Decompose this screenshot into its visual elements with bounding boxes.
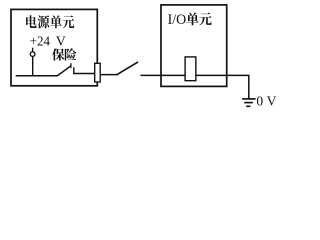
fuse body (保险) (95, 63, 101, 82)
label 保险 (fuse) (52, 48, 76, 60)
wire: left horizontal (16, 75, 58, 77)
wire: fuse to external switch (100, 74, 117, 76)
wire: terminal lead down (32, 56, 34, 76)
switch fixed post (73, 67, 75, 74)
wire: switch to I/O unit and on down to 0V (141, 75, 249, 98)
svg-text:I/O: I/O (168, 12, 187, 28)
+24V terminal: stem (32, 48, 34, 52)
svg-text:V: V (56, 35, 66, 50)
switch blade tick (70, 63, 72, 68)
power supply unit box 电源单元 (11, 9, 97, 85)
wire: post to fuse (73, 73, 95, 75)
input circuit rectangle inside I/O unit (185, 57, 196, 81)
external switch blade (117, 62, 139, 75)
I/O unit box I/O单元 (161, 5, 227, 87)
ground symbol (0 V) (242, 99, 256, 106)
svg-text:+24: +24 (30, 35, 50, 50)
label 单元 of I/O单元 (186, 12, 211, 25)
switch contact blade (inside box) (57, 66, 71, 76)
svg-text:0 V: 0 V (256, 94, 276, 109)
label 电源单元 (power supply unit) (26, 15, 74, 28)
+24V terminal circle (30, 52, 35, 57)
